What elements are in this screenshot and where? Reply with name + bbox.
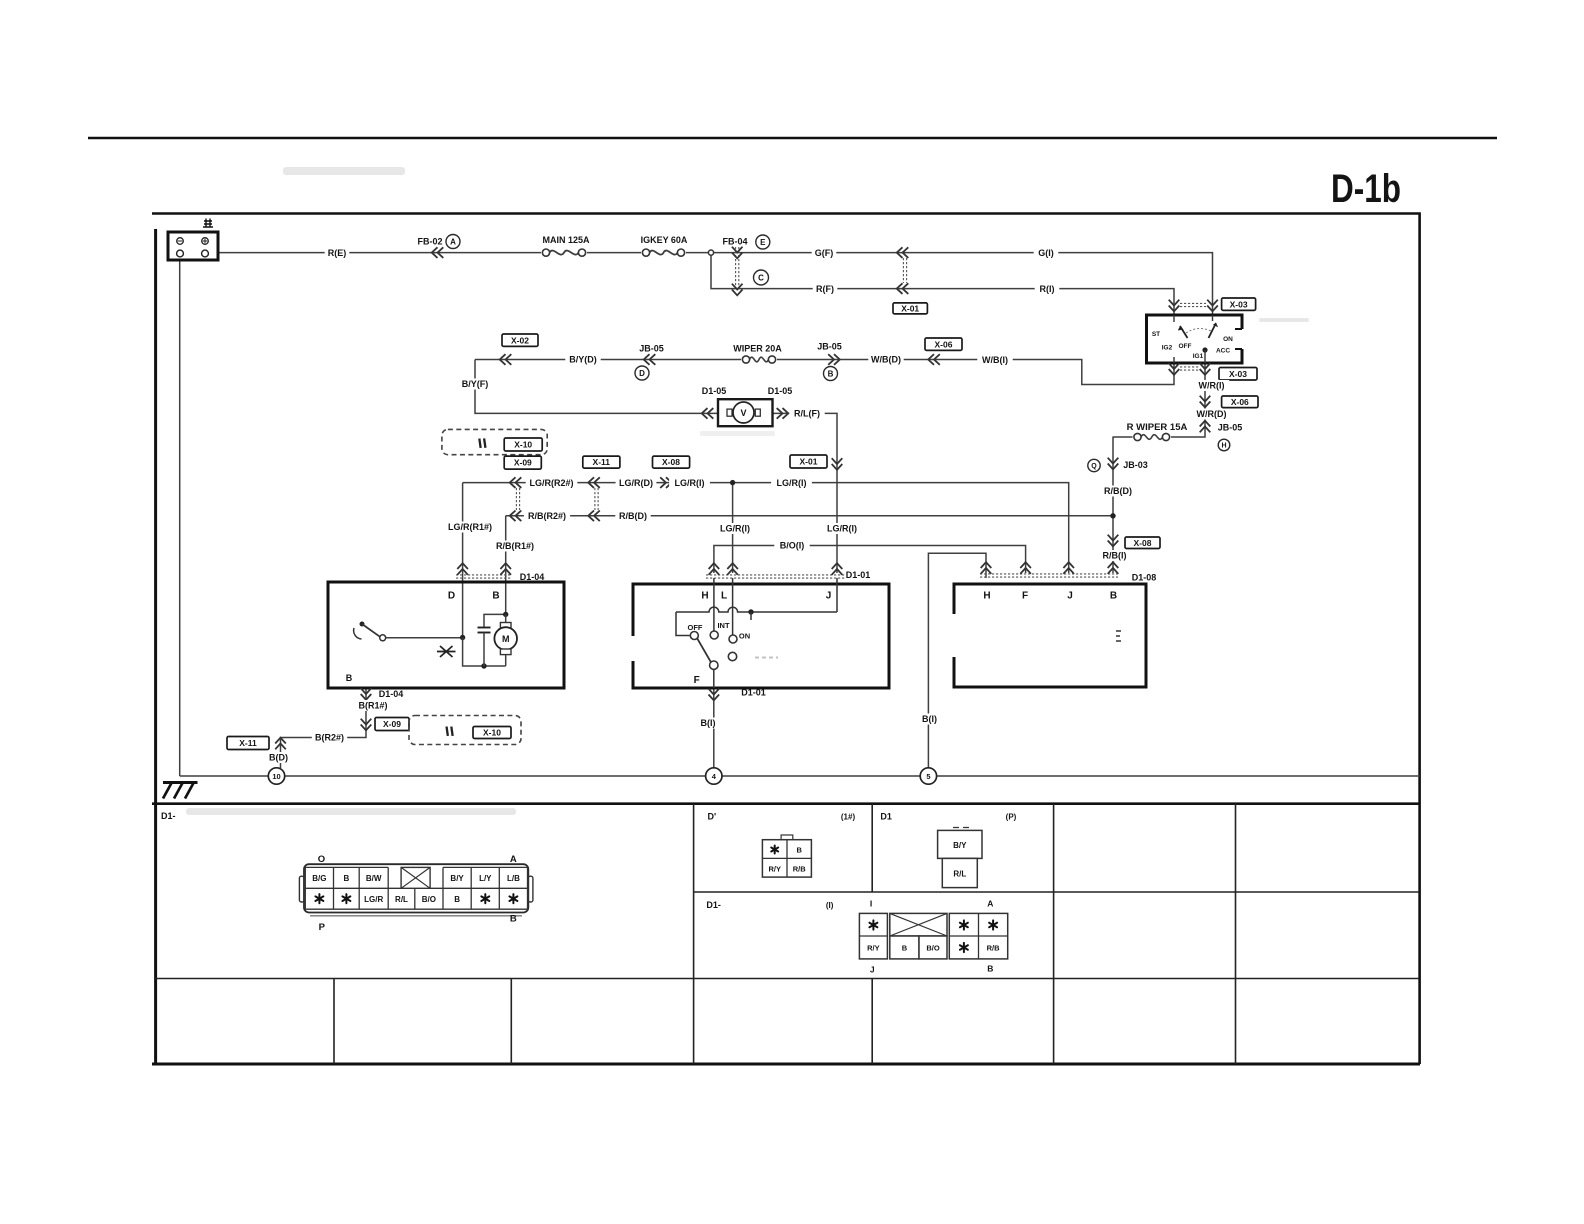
wire label B/Y(D) [565,354,600,365]
wire label B(D) [266,752,291,763]
svg-text:R/B: R/B [987,944,1001,953]
wire label R/B(I) [1097,550,1132,561]
svg-text:B: B [796,846,802,855]
bottom table grid [152,804,1420,1064]
svg-text:D1-05: D1-05 [768,386,793,396]
svg-text:L: L [721,591,727,602]
svg-text:B: B [454,895,460,904]
wire label LG/R(I) pin J [822,523,863,534]
svg-text:B/O: B/O [422,895,436,904]
svg-text:R/Y: R/Y [867,944,880,953]
svg-text:G(I): G(I) [1038,248,1054,258]
park switch lever [354,622,466,641]
svg-text:B: B [902,944,908,953]
svg-text:INT: INT [717,621,730,630]
svg-text:C: C [758,273,764,282]
wire label B/Y(F) [457,379,492,390]
svg-text:R/B(D): R/B(D) [619,511,647,521]
wire label W/R(D) [1194,409,1229,420]
wire label B(I) to node 5 [917,714,942,725]
connector X-08 on R/B [1108,535,1160,549]
title D-1b [1331,167,1401,211]
washer motor D1-05 [702,386,793,426]
rear wiper washer switch D1-01 box [633,584,889,688]
wire B(R1#)/B(R2#)/B(D) D1-04 pin B to ground node 10 [281,688,367,768]
connector D1-01 [706,563,870,580]
svg-text:D': D' [708,812,717,822]
svg-text:A: A [450,237,456,246]
svg-text:H: H [983,591,990,602]
connector D1-04 pin B below [355,688,403,711]
table connector D1 pinout (P) [938,828,982,888]
wire label R(F) [813,283,838,294]
svg-text:LG/R(R2#): LG/R(R2#) [529,478,573,488]
wire label B/O(I) [774,540,809,551]
wire battery negative to ground bus [179,256,181,776]
connector FB-04 (E)(C) [722,235,769,295]
svg-text:D1-01: D1-01 [741,688,766,698]
svg-text:ST: ST [1152,331,1160,338]
wire label R/B(D) [1100,486,1135,497]
connector X-11 chevrons [588,477,600,521]
connector D1-01 pin F below [696,688,766,729]
svg-text:R/B(R2#): R/B(R2#) [528,511,566,521]
connector D1-08 [980,562,1156,582]
wire R/B row [506,515,1113,517]
wire label LG/R(I) second [771,477,812,488]
table connector D1-04 pinout [299,854,532,933]
ground node 5 [920,768,936,784]
svg-text:F: F [1022,591,1028,602]
svg-text:J: J [1067,591,1073,602]
svg-text:X-06: X-06 [935,339,953,349]
svg-text:R/B(D): R/B(D) [1104,486,1132,496]
svg-text:(P): (P) [1006,813,1017,822]
svg-text:W/R(D): W/R(D) [1197,409,1227,419]
svg-text:D1-: D1- [706,900,721,910]
svg-text:ON: ON [739,632,750,641]
svg-text:X-11: X-11 [593,457,611,467]
svg-text:FB-02: FB-02 [417,237,442,247]
wire LG/R(R1#) to D1-04 pin D [462,483,464,638]
wire W/R(I)/W/R(D) ignition to fuse row [1113,363,1206,437]
svg-text:D: D [448,591,455,602]
glyph in D1-04 [437,646,456,657]
svg-text:(I): (I) [826,901,834,910]
svg-text:ACC: ACC [1216,348,1230,355]
svg-text:X-02: X-02 [511,335,529,345]
connector X-01 inline [893,247,927,314]
svg-text:IG1: IG1 [1193,353,1204,360]
connector X-02 [500,334,538,365]
svg-text:L/B: L/B [507,874,520,883]
svg-text:B: B [492,591,499,602]
svg-text:B(I): B(I) [922,714,937,724]
battery [168,219,218,261]
wire label W/R(I) [1194,380,1229,391]
svg-text:B(R1#): B(R1#) [358,701,387,711]
svg-text:JB-05: JB-05 [817,342,842,352]
module D1-08 box [954,584,1146,687]
svg-text:V: V [740,408,746,418]
wire label R(E) [325,247,350,258]
wire B/Y(F) to washer motor [475,360,718,414]
svg-text:10: 10 [272,772,280,781]
wire D1-01 pin F to ground node 4 [713,688,715,768]
svg-text:LG/R(I): LG/R(I) [720,524,750,534]
svg-text:LG/R(I): LG/R(I) [777,478,807,488]
svg-text:MAIN 125A: MAIN 125A [542,235,590,245]
svg-text:X-10: X-10 [483,728,501,738]
wire label G(F) [812,247,837,258]
svg-text:B/O(I): B/O(I) [780,541,805,551]
fuse MAIN 125A [541,235,590,259]
svg-text:X-11: X-11 [239,738,257,748]
svg-text:X-03: X-03 [1229,369,1247,379]
svg-text:D1-08: D1-08 [1132,573,1157,583]
svg-text:ON: ON [1223,336,1233,343]
svg-text:D: D [639,369,645,378]
wire label LG/R(I) first [669,477,710,488]
svg-text:H: H [1221,443,1226,450]
svg-text:R/B(I): R/B(I) [1103,551,1127,561]
svg-text:JB-03: JB-03 [1123,460,1148,470]
svg-text:B(R2#): B(R2#) [315,733,344,743]
svg-text:JB-05: JB-05 [639,344,664,354]
wire label R/B(R2#) [524,510,570,521]
svg-text:R/B(R1#): R/B(R1#) [496,541,534,551]
faint scan streaks [186,167,1309,815]
connector X-06 on W/R [1200,396,1258,408]
svg-text:X-09: X-09 [514,458,532,468]
svg-text:W/B(D): W/B(D) [871,355,901,365]
svg-text:B: B [510,914,517,925]
connector X-08 chevron [660,477,672,488]
wire label R/L(F) [789,408,824,419]
svg-text:LG/R: LG/R [364,895,383,904]
wire B/Y(D) / W/B(D) / W/B(I) row to ignition switch [475,360,1174,385]
svg-text:(1#): (1#) [841,813,856,822]
node R/B junction [1110,513,1115,518]
svg-text:OFF: OFF [688,623,703,632]
svg-text:LG/R(D): LG/R(D) [619,478,653,488]
connector X-06 inline [925,338,962,365]
svg-text:IG2: IG2 [1162,345,1173,352]
svg-text:OFF: OFF [1179,343,1192,350]
connector X-09 on B wire [361,718,409,731]
svg-text:A: A [510,854,517,865]
svg-text:B: B [346,673,353,683]
svg-text:B: B [987,964,993,974]
svg-text:J: J [870,965,875,975]
wire label R/B(D) mesh [615,510,650,521]
connector JB-05 (H) [1200,421,1243,451]
svg-text:X-03: X-03 [1230,299,1248,309]
svg-text:X-01: X-01 [901,304,919,314]
svg-text:X-06: X-06 [1231,397,1249,407]
connector X-10 dashed lower [409,716,521,745]
svg-text:R/L(F): R/L(F) [794,409,820,419]
node LG/R junction [730,480,735,485]
svg-text:LG/R(I): LG/R(I) [675,478,705,488]
connector FB-02 (A) [417,235,460,258]
wire label B(R2#) [312,732,347,743]
svg-text:B/Y: B/Y [953,841,967,850]
wire label R/B(R1#) [492,541,538,552]
label box X-11 [583,456,620,468]
wire label LG/R(I) pin L [715,523,756,534]
wire label LG/R(R2#) [526,477,578,488]
fuse WIPER 20A [733,344,782,366]
wire label G(I) [1034,247,1059,258]
connector X-01 below washer [790,455,842,470]
connector X-03 bottom [1169,363,1257,380]
svg-text:E: E [760,238,766,247]
connector X-10 dashed upper [442,429,547,454]
svg-text:R/Y: R/Y [768,865,781,874]
svg-text:Q: Q [1091,463,1097,470]
svg-text:J: J [826,591,832,602]
svg-text:G(F): G(F) [815,248,834,258]
svg-text:5: 5 [926,772,930,781]
wire LG/R(I) to D1-01 pin L [732,483,734,573]
wire R/B(R1#) to D1-04 pin B [505,516,507,615]
connector JB-03 (Q) [1088,458,1148,472]
svg-text:D1-05: D1-05 [702,386,727,396]
svg-text:IGKEY 60A: IGKEY 60A [641,235,688,245]
wire label W/B(D) [868,354,903,365]
wire label LG/R(R1#) [444,522,496,533]
wire R(E) battery feed row [218,252,711,254]
svg-text:B/Y(F): B/Y(F) [462,379,489,389]
svg-text:D1: D1 [880,812,892,822]
table connector D1 pinout (1#) [762,835,811,877]
svg-text:D1-: D1- [161,811,176,821]
svg-text:I: I [870,899,872,909]
svg-text:B/Y: B/Y [450,874,464,883]
svg-text:H: H [701,591,708,602]
diagram frame [152,214,1420,1065]
svg-text:X-10: X-10 [514,440,532,450]
capacitor [478,614,506,666]
svg-text:B/W: B/W [366,874,382,883]
motor M D1-04 [494,612,517,666]
svg-text:D1-01: D1-01 [846,570,871,580]
svg-text:B: B [1110,591,1117,602]
svg-text:JB-05: JB-05 [1218,423,1243,433]
table connector D1 pinout (I) [859,899,1007,975]
ground node 4 [706,768,722,784]
wire label W/B(I) [977,355,1012,366]
svg-text:P: P [319,922,326,933]
ground bus [180,775,1420,777]
svg-text:B/Y(D): B/Y(D) [569,355,597,365]
wire label R(I) [1035,283,1060,294]
svg-text:X-09: X-09 [383,719,401,729]
svg-text:R WIPER 15A: R WIPER 15A [1127,422,1188,433]
ignition switch [1147,315,1243,363]
connector X-09 chevrons [510,477,522,521]
connector X-03 top [1169,298,1256,311]
wire B/O(I) D1-01 pin H to D1-08 pin F [714,546,1026,574]
fuse IGKEY 60A [641,235,688,259]
node battery feed junction [708,250,713,255]
wire R(F)/R(I) to ignition switch [711,253,1174,315]
page top rule [88,137,1497,140]
rear wiper motor D1-04 box [328,582,564,688]
svg-text:M: M [502,634,510,644]
wire motor bottom loop [463,638,506,669]
svg-text:X-08: X-08 [662,457,680,467]
svg-text:B: B [344,874,350,883]
svg-text:WIPER 20A: WIPER 20A [733,344,782,354]
label box X-09 [504,456,541,469]
connector D1-04 [456,563,544,582]
svg-text:X-08: X-08 [1134,538,1152,548]
svg-text:R/L: R/L [395,895,408,904]
wire LG/R row to D1-08 pin J [463,483,1069,573]
svg-text:B: B [828,369,834,378]
ground symbol chassis [163,783,198,799]
switch contacts OFF INT ON [676,578,837,688]
svg-text:LG/R(I): LG/R(I) [827,524,857,534]
fuse R WIPER 15A [1127,422,1188,443]
wire B(I) D1-08 pin H to ground node 5 [928,553,986,768]
svg-text:B/O: B/O [926,944,940,953]
svg-text:FB-04: FB-04 [722,237,747,247]
wire label LG/R(D) [616,477,657,488]
svg-text:R(I): R(I) [1040,284,1055,294]
svg-text:LG/R(R1#): LG/R(R1#) [448,522,492,532]
svg-text:O: O [318,854,325,865]
svg-text:D1-04: D1-04 [379,689,404,699]
svg-text:B(I): B(I) [701,718,716,728]
svg-text:R(E): R(E) [328,248,347,258]
wire R/L(F) from washer motor down to D1-01 pin J [773,413,838,573]
svg-text:R/B: R/B [793,865,807,874]
svg-text:X-01: X-01 [800,457,818,467]
svg-text:F: F [694,675,700,686]
svg-text:R/L: R/L [953,870,966,879]
svg-text:L/Y: L/Y [479,874,492,883]
connector X-11 on B wire [227,737,286,750]
wire G(F)/G(I) to ignition switch [711,253,1213,315]
svg-text:D-1b: D-1b [1331,167,1401,211]
svg-text:B(D): B(D) [269,753,288,763]
svg-text:W/R(I): W/R(I) [1199,381,1225,391]
svg-text:A: A [987,899,993,909]
ground node 10 [268,768,284,784]
svg-text:W/B(I): W/B(I) [982,355,1008,365]
svg-text:B/G: B/G [312,874,326,883]
connector JB-05 (B) [817,342,842,381]
svg-text:R(F): R(F) [816,284,834,294]
connector JB-05 (D) [635,344,664,381]
wire R/B(D) fuse to D1-08 pin B [1112,437,1114,573]
label box X-08 [653,456,690,468]
